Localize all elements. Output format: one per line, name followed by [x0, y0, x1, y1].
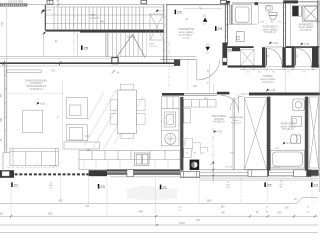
wardrobe left wall [233, 98, 235, 170]
right edge wall [317, 0, 319, 48]
wardrobe X room [244, 98, 266, 170]
armchair 1 [66, 98, 87, 119]
stacked dims bottom right [279, 181, 283, 188]
svg-text:710: 710 [1, 21, 4, 26]
dark jamb right of box1 [267, 170, 269, 176]
right window strip with X [309, 97, 319, 168]
svg-text:+2,76: +2,76 [159, 10, 166, 13]
lower stair flight [107, 33, 142, 57]
svg-text:P=6,21 m²: P=6,21 m² [262, 81, 274, 84]
svg-text:Z5: Z5 [83, 45, 88, 50]
svg-text:Z5: Z5 [267, 183, 272, 188]
door jamb 3 [292, 47, 295, 66]
svg-text:940: 940 [100, 20, 105, 23]
half wall line y24 [232, 23, 257, 25]
corridor upper lines [228, 49, 240, 51]
dim ticks on wall [3, 61, 62, 65]
left pier [0, 170, 14, 178]
svg-text:168: 168 [277, 212, 282, 215]
washbasin top bathroom [265, 5, 272, 11]
kitchen counter along top wall [184, 100, 216, 108]
washbasin [293, 99, 304, 111]
dark pier on top wall [255, 2, 259, 5]
kitchen strip left [162, 97, 179, 146]
steps inside by pantry [185, 138, 208, 154]
dashed axis x74 [73, 7, 75, 57]
rug [23, 110, 43, 132]
stair room right wall [225, 3, 227, 45]
right pier living [89, 170, 107, 176]
shelf rect [6, 70, 41, 73]
KUPAONICA label [263, 26, 278, 35]
upper stair flight [45, 7, 163, 30]
small cabinet below counter [184, 108, 191, 123]
marker +0,05 bath [282, 142, 292, 145]
svg-text:P=3,81 m²: P=3,81 m² [213, 121, 225, 124]
watermark blob bottom [127, 186, 177, 200]
ticks row2 [10, 215, 316, 217]
wardrobe door arc [230, 96, 244, 111]
svg-text:162: 162 [196, 219, 201, 222]
S2 arrow [205, 43, 210, 55]
inner wall line x290.5 [290, 2, 292, 46]
svg-text:Z5: Z5 [177, 10, 182, 15]
dim line 3 [0, 224, 318, 226]
toilet right [290, 134, 300, 143]
hodnik dim line [240, 68, 318, 70]
svg-text:17x17,5: 17x17,5 [90, 17, 99, 20]
bathtub bottom [271, 150, 305, 168]
svg-text:1204: 1204 [179, 221, 185, 225]
svg-text:GARDEROBA: GARDEROBA [229, 116, 244, 119]
svg-text:697: 697 [59, 198, 64, 202]
svg-text:P=49,88 m²: P=49,88 m² [30, 88, 43, 91]
svg-text:S2: S2 [206, 43, 210, 47]
dining table [118, 90, 137, 134]
outdoor steps lines [110, 177, 318, 181]
kitchen sink circle [165, 133, 176, 144]
vertical dim by steps [212, 161, 214, 181]
washing machine lower bath [292, 116, 302, 126]
svg-text:17x175: 17x175 [225, 166, 233, 168]
top hatched band [0, 0, 27, 6]
svg-text:+0,08: +0,08 [272, 42, 279, 45]
right edge dim line [318, 0, 320, 192]
svg-text:17x17,5: 17x17,5 [149, 46, 158, 48]
bath label [281, 123, 296, 132]
wall thin lines mid [200, 170, 294, 176]
kupaonica bottom wall [225, 46, 254, 48]
stacked dims mid [226, 182, 230, 189]
wardrobe label [229, 116, 244, 125]
Z2 marker bottom right [311, 182, 319, 187]
window box 1 [248, 170, 268, 177]
stair room left wall [164, 5, 167, 63]
level marker +2,78 [41, 9, 51, 13]
boiler black box [190, 160, 200, 170]
window marker Z5 mid [215, 26, 223, 31]
tv bench [64, 142, 100, 149]
svg-text:17x17,5: 17x17,5 [272, 167, 281, 169]
svg-text:+0,05: +0,05 [39, 102, 46, 105]
door threshold box kitchen [181, 172, 200, 178]
living room label [25, 79, 48, 90]
svg-text:240: 240 [221, 212, 226, 215]
marker +2,76 stair room [156, 9, 166, 12]
chair left 2 [110, 113, 117, 124]
armchair 2 [66, 125, 87, 141]
wall between wardrobe and bath [267, 97, 270, 171]
dark appliance [292, 6, 298, 16]
marker +0,08 [269, 42, 279, 45]
door jamb 1 [262, 47, 265, 66]
door arc from stairs to living [197, 60, 220, 80]
floor line y56.7 [0, 56, 197, 58]
door jamb 2 [282, 47, 285, 66]
bottom wall dark segment kitchen [107, 170, 180, 172]
svg-text:17x17,5: 17x17,5 [182, 37, 191, 39]
svg-text:P=2,50 m²: P=2,50 m² [300, 29, 312, 32]
svg-text:Z3: Z3 [100, 184, 105, 189]
sink double [135, 153, 150, 165]
dark band below upper flight [45, 30, 80, 32]
STEPENISTE label [178, 28, 194, 39]
marker +0,05 pantry [213, 130, 223, 133]
dim line 4 [0, 232, 318, 234]
corridor bottom wall y65-67.5 [228, 65, 266, 67]
svg-text:P=4,39 m²: P=4,39 m² [264, 31, 276, 34]
tick mark 25 [57, 3, 60, 5]
half wall y24 [225, 23, 240, 25]
Z5 marker bottom [264, 182, 272, 187]
window marker Z5 left [81, 45, 89, 50]
wall dark right end [311, 170, 319, 176]
stacked dims left [49, 182, 53, 189]
dim extension lines [11, 177, 199, 226]
top wall dark [284, 0, 298, 3]
chair bottom [121, 134, 134, 139]
svg-text:282: 282 [221, 205, 226, 208]
vertical dim line x43.7 [43, 32, 106, 58]
faint floor line [0, 93, 63, 95]
stair left edge wall [44, 5, 46, 30]
Z1 marker mid [160, 185, 168, 190]
counter hatch light [84, 160, 168, 169]
niche boxes [184, 148, 191, 157]
svg-text:690: 690 [207, 198, 212, 202]
marker +0,05 living [36, 102, 46, 106]
shower screen line [258, 5, 260, 25]
watermark diagonal streaks [84, 90, 144, 150]
svg-text:Z1: Z1 [162, 185, 167, 190]
wall right of bath [305, 97, 308, 171]
svg-text:+0,08: +0,08 [269, 89, 276, 92]
dim line 2 [0, 215, 318, 217]
axis dashes below wall [241, 177, 312, 202]
marker +0,08 right [300, 43, 310, 46]
svg-text:440: 440 [139, 210, 144, 214]
wall below stair room right [222, 43, 227, 66]
svg-text:742: 742 [51, 70, 56, 73]
svg-text:718: 718 [85, 205, 90, 208]
landing edge line [146, 32, 148, 57]
chair left 1 [110, 100, 117, 111]
white notch kitchen [127, 169, 134, 176]
spremiste bottom wall [286, 46, 319, 48]
door leaf+arc 2 [295, 46, 312, 65]
vertical dim line kitchen door [209, 64, 211, 93]
HODNIK label [261, 75, 276, 84]
svg-text:P=17,56 m²: P=17,56 m² [180, 34, 193, 37]
bathtub [232, 5, 251, 24]
svg-text:230: 230 [85, 135, 90, 138]
svg-text:25 150: 25 150 [50, 166, 57, 168]
stair room top line [166, 4, 230, 6]
chair right 2 [137, 113, 146, 124]
top wall thin [232, 1, 284, 3]
marker +0,08 hodnik [266, 89, 276, 92]
sliding door dashes [15, 173, 89, 175]
door jamb 4 [312, 47, 319, 66]
svg-text:+0,08: +0,08 [303, 43, 310, 46]
Z3 marker [98, 184, 106, 189]
svg-text:S1: S1 [203, 14, 207, 18]
toilet top [269, 12, 277, 20]
faint vertical line left [6, 5, 8, 63]
svg-text:+0,05: +0,05 [285, 142, 292, 145]
washing machine [236, 32, 244, 42]
svg-text:+0,05: +0,05 [216, 131, 223, 134]
svg-text:590: 590 [48, 211, 53, 215]
wall hatches [5, 6, 286, 146]
faint vertical line x58 [62, 80, 64, 150]
svg-text:Z2: Z2 [313, 183, 318, 188]
spremiste label [299, 23, 314, 32]
chair right 1 [137, 100, 146, 111]
window box 2 [294, 170, 312, 177]
pantry label [212, 115, 226, 124]
top dim line [0, 4, 165, 6]
dim line 1 [0, 202, 297, 204]
stair treads [54, 7, 144, 30]
left edge dim texts [1, 94, 3, 141]
shower with X [303, 5, 319, 22]
dark box on wall [174, 59, 180, 66]
shaft with X [240, 49, 254, 65]
svg-text:1234 567890: 1234 567890 [8, 0, 24, 3]
window marker Z5 top [175, 10, 183, 15]
pantry door arc [221, 95, 239, 113]
svg-text:Z5: Z5 [217, 26, 222, 31]
S1 arrow [203, 14, 208, 26]
dashed door track [7, 166, 58, 168]
stair direction arrow [116, 35, 145, 58]
svg-text:P=2,20 m²: P=2,20 m² [231, 122, 241, 125]
small box left [141, 0, 147, 4]
small box on top wall [221, 0, 227, 3]
dashed axis x213 [212, 128, 214, 184]
left wall [5, 62, 7, 152]
small box on top line [47, 0, 53, 4]
svg-text:Z1: Z1 [14, 183, 19, 188]
X brace shaft [150, 14, 164, 40]
stair room bottom wall [160, 59, 197, 61]
column box [112, 58, 118, 64]
door leaf+arc 1 [266, 46, 282, 65]
chair top [121, 84, 134, 90]
dim line stair room top [183, 8, 222, 10]
svg-text:748: 748 [87, 149, 92, 152]
svg-text:16x17,5: 16x17,5 [127, 37, 136, 39]
dark wall segment [226, 1, 230, 4]
right wall of kupaonica [284, 0, 286, 48]
kitchen right wall [180, 97, 183, 171]
svg-text:P=4,35 m²: P=4,35 m² [282, 128, 294, 131]
svg-text:165: 165 [285, 207, 290, 210]
svg-text:lorem: lorem [233, 119, 239, 122]
left wall [230, 5, 232, 25]
